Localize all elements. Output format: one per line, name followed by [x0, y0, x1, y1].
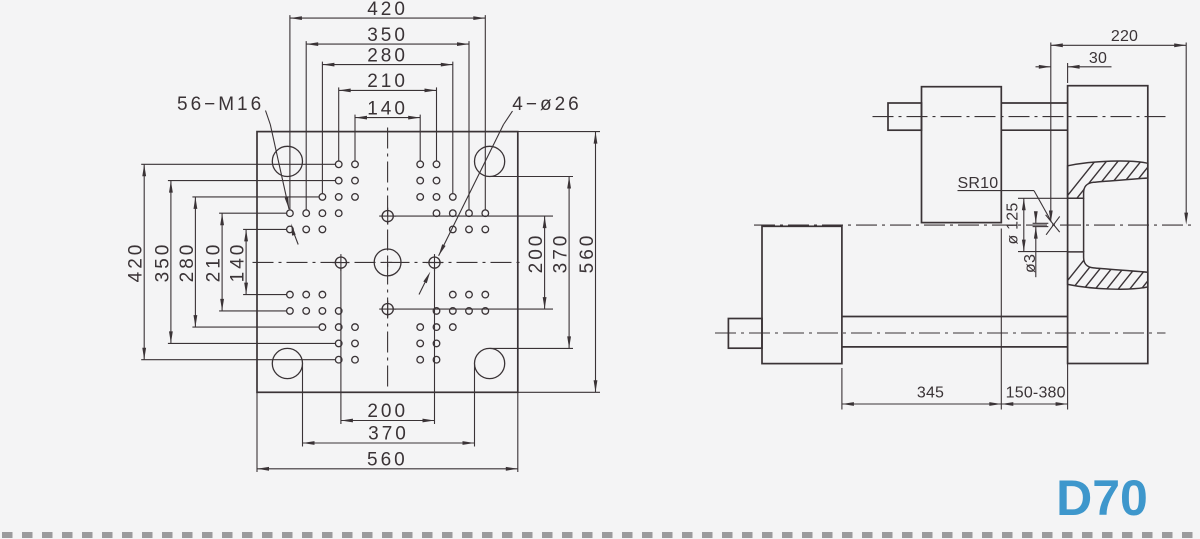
center hole circle with center mark	[374, 249, 401, 276]
lower tie-bar centerline	[715, 332, 1166, 334]
svg-text:200: 200	[367, 401, 408, 422]
dimension 150-380	[1067, 364, 1069, 410]
56x M16 mounting holes grid	[335, 161, 342, 168]
tie-bar hole bottom-right	[475, 348, 505, 378]
right dimension 560	[595, 132, 597, 393]
top dimension 210	[339, 89, 437, 91]
top dimension 280	[322, 64, 452, 66]
dimension 345	[841, 368, 843, 410]
tie-bar hole top-right	[475, 146, 505, 176]
svg-text:350: 350	[152, 242, 173, 283]
tie-bar hole top-left	[272, 146, 302, 176]
top dimension 420	[290, 17, 485, 19]
svg-text:D70: D70	[1056, 470, 1148, 526]
platen plate outline (560x560)	[257, 132, 518, 393]
svg-text:56−M16: 56−M16	[177, 94, 264, 115]
top dimension 350	[306, 43, 469, 45]
locating bore step face line	[1083, 198, 1085, 252]
tie-bar hole bottom-left	[272, 348, 302, 378]
fixed platen block (side view)	[1068, 86, 1148, 364]
dimension phi3	[1033, 222, 1049, 224]
svg-text:370: 370	[551, 233, 572, 274]
lower tie-bar stub (left of support box)	[728, 319, 762, 349]
right reference extension line with down arrow	[1185, 43, 1187, 216]
bottom dashed separator line	[2, 532, 1200, 538]
upper tie-bar between block and platen	[1001, 102, 1067, 104]
svg-text:SR10: SR10	[958, 175, 999, 192]
svg-text:30: 30	[1089, 50, 1107, 67]
right dimension 200	[544, 216, 546, 309]
bottom dimension 370	[303, 442, 475, 444]
horizontal centerline of platen	[253, 261, 523, 263]
svg-text:280: 280	[367, 45, 408, 66]
svg-text:210: 210	[367, 71, 408, 92]
phi26 hole W	[335, 257, 346, 268]
left dimension 280	[194, 197, 196, 327]
phi26 hole S	[382, 304, 393, 315]
dimension 30	[1067, 63, 1069, 83]
nozzle contact point marker (X cross)	[1046, 215, 1060, 232]
upper tie-bar stub (left of carriage block)	[888, 103, 922, 130]
bottom dimension 200	[341, 420, 435, 422]
lower support box	[762, 226, 842, 363]
left dimension 140	[245, 229, 247, 294]
left dimension 420	[143, 164, 145, 359]
main nozzle centerline	[754, 224, 1195, 226]
svg-text:ø 125: ø 125	[1005, 203, 1022, 245]
phi26 hole N	[382, 211, 393, 222]
svg-text:140: 140	[228, 242, 249, 283]
phi26 hole E	[429, 257, 440, 268]
svg-text:140: 140	[367, 98, 408, 119]
svg-text:560: 560	[577, 233, 598, 274]
nozzle contact extension line with down arrow	[1050, 43, 1052, 214]
top dimension 140	[355, 117, 420, 119]
svg-text:370: 370	[368, 424, 409, 445]
dimension phi125	[1018, 197, 1068, 199]
right dimension 370	[568, 177, 570, 349]
svg-text:4−ø26: 4−ø26	[512, 94, 581, 115]
svg-text:280: 280	[177, 242, 198, 283]
svg-text:200: 200	[526, 233, 547, 274]
svg-text:210: 210	[204, 242, 225, 283]
bottom dimension 560	[257, 468, 518, 470]
svg-text:560: 560	[367, 449, 408, 470]
svg-text:420: 420	[126, 242, 147, 283]
upper tie-bar centerline	[873, 116, 1167, 118]
dimension 220	[1051, 44, 1186, 46]
left dimension 350	[170, 181, 172, 344]
svg-text:220: 220	[1111, 28, 1138, 45]
lower tie-bar between box and platen	[842, 316, 1068, 318]
vertical centerline of platen	[387, 128, 389, 389]
injection carriage block	[922, 87, 1002, 223]
left dimension 210	[221, 213, 223, 311]
svg-text:345: 345	[917, 384, 944, 401]
svg-text:ø3: ø3	[1022, 254, 1039, 273]
svg-text:350: 350	[367, 25, 408, 46]
svg-text:420: 420	[367, 0, 408, 20]
svg-text:150-380: 150-380	[1006, 384, 1066, 401]
